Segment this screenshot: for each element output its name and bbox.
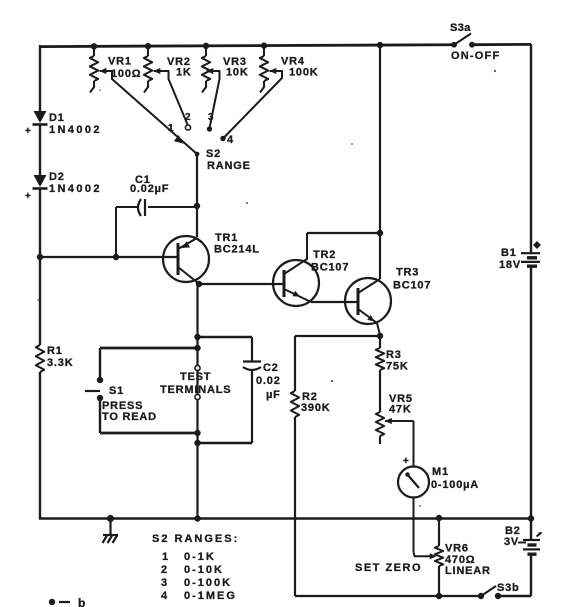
svg-text:VR1: VR1	[108, 56, 132, 68]
svg-text:3V: 3V	[504, 536, 519, 548]
svg-text:R3: R3	[386, 349, 402, 361]
svg-text:S3a: S3a	[450, 22, 471, 34]
svg-text:S1: S1	[109, 385, 124, 397]
svg-text:B1: B1	[501, 247, 517, 259]
svg-text:0.02: 0.02	[256, 375, 281, 387]
svg-text:ON-OFF: ON-OFF	[451, 50, 500, 62]
svg-text:3.3K: 3.3K	[47, 357, 73, 369]
svg-text:TR1: TR1	[215, 232, 238, 244]
svg-text:1: 1	[162, 551, 169, 563]
svg-text:3: 3	[161, 577, 168, 589]
svg-text:2: 2	[185, 112, 191, 123]
svg-text:BC214L: BC214L	[214, 244, 260, 256]
svg-text:D2: D2	[49, 171, 65, 183]
svg-text:10K: 10K	[226, 67, 249, 79]
svg-text:1N4002: 1N4002	[49, 124, 102, 136]
svg-text:TR2: TR2	[313, 249, 336, 261]
svg-text:3: 3	[208, 112, 214, 123]
svg-text:1N4002: 1N4002	[49, 183, 102, 195]
svg-text:S3b: S3b	[497, 582, 520, 594]
svg-text:VR6: VR6	[445, 543, 469, 555]
svg-text:18V: 18V	[499, 259, 521, 271]
svg-text:b: b	[78, 596, 85, 607]
svg-text:0-1K: 0-1K	[184, 551, 216, 563]
svg-text:BC107: BC107	[311, 262, 349, 274]
svg-text:75K: 75K	[386, 361, 409, 373]
svg-text:0-100µA: 0-100µA	[431, 479, 479, 491]
svg-text:1K: 1K	[176, 67, 192, 79]
svg-text:0.02µF: 0.02µF	[130, 183, 169, 195]
svg-text:390K: 390K	[301, 402, 331, 414]
svg-text:100Ω: 100Ω	[111, 68, 141, 80]
svg-text:47K: 47K	[389, 404, 412, 416]
svg-text:µF: µF	[266, 389, 281, 401]
svg-text:RANGE: RANGE	[207, 160, 251, 172]
svg-text:LINEAR: LINEAR	[445, 565, 491, 577]
svg-text:4: 4	[227, 134, 234, 146]
svg-text:M1: M1	[432, 466, 449, 478]
svg-text:TERMINALS: TERMINALS	[160, 384, 231, 396]
svg-text:2: 2	[161, 564, 168, 576]
svg-text:100K: 100K	[289, 67, 319, 79]
svg-text:S2: S2	[206, 148, 221, 160]
svg-text:TEST: TEST	[180, 371, 211, 383]
svg-text:D1: D1	[49, 112, 65, 124]
svg-text:TO READ: TO READ	[102, 411, 157, 423]
svg-text:0-10K: 0-10K	[184, 564, 224, 576]
svg-text:4: 4	[161, 590, 168, 602]
svg-text:1: 1	[168, 123, 174, 134]
svg-text:R1: R1	[47, 345, 63, 357]
svg-text:SET ZERO: SET ZERO	[355, 562, 422, 574]
svg-text:+: +	[403, 456, 409, 467]
svg-text:+: +	[25, 126, 31, 137]
svg-text:BC107: BC107	[393, 280, 431, 292]
svg-text:0-100K: 0-100K	[184, 577, 232, 589]
svg-text:0-1MEG: 0-1MEG	[184, 590, 237, 602]
svg-text:TR3: TR3	[396, 267, 419, 279]
svg-text:S2 RANGES:: S2 RANGES:	[152, 533, 239, 545]
svg-text:C2: C2	[263, 362, 279, 374]
svg-text:+: +	[25, 191, 31, 202]
